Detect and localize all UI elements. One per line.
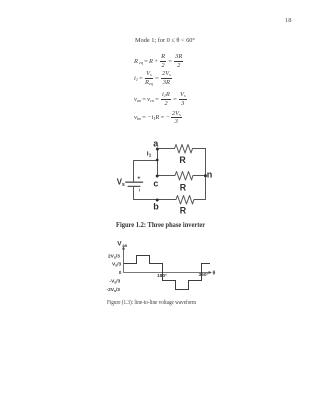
svg-text:360°: 360°	[199, 272, 209, 278]
svg-text:-2Vs/3: -2Vs/3	[107, 287, 121, 293]
svg-text:a: a	[153, 139, 159, 149]
svg-text:Vs/3: Vs/3	[112, 262, 122, 268]
svg-text:0: 0	[119, 270, 122, 276]
svg-text:θ: θ	[213, 271, 216, 277]
svg-text:+: +	[137, 176, 141, 182]
svg-text:n: n	[207, 169, 213, 179]
svg-text:an: an	[122, 243, 127, 248]
svg-text:-Vs/3: -Vs/3	[110, 279, 121, 285]
svg-text:b: b	[153, 202, 159, 212]
svg-text:R: R	[180, 205, 187, 215]
svg-text:180°: 180°	[157, 273, 167, 279]
svg-text:s: s	[122, 182, 125, 188]
svg-text:R: R	[179, 155, 186, 165]
svg-text:1: 1	[149, 153, 152, 158]
svg-text:R: R	[180, 182, 187, 192]
svg-text:c: c	[153, 179, 158, 189]
svg-text:2Vs/3: 2Vs/3	[108, 254, 120, 260]
